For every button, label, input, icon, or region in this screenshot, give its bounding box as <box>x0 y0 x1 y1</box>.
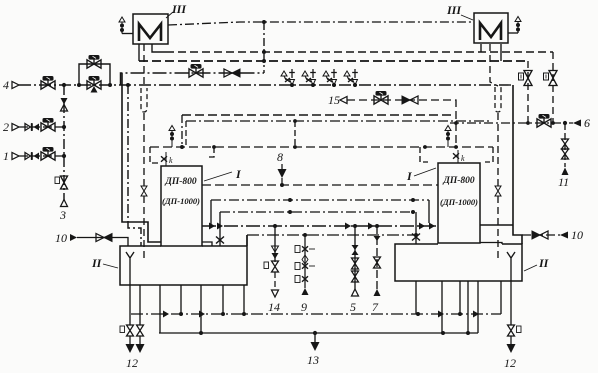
check valve on 10 right <box>532 231 548 239</box>
motor valve on line 15 <box>374 91 388 104</box>
bottom header A y314 <box>131 311 501 318</box>
label 14 <box>268 300 280 314</box>
label 9 <box>301 300 307 314</box>
svg-text:9: 9 <box>301 300 307 314</box>
line y185 between units <box>202 183 438 187</box>
inlet 1 line <box>19 155 64 157</box>
svg-text:2: 2 <box>3 120 9 134</box>
label 12 left <box>126 356 138 370</box>
label 7 <box>372 300 379 314</box>
vessel left bottom pipe x224 <box>222 285 224 314</box>
inlet 8 drop <box>281 178 283 185</box>
svg-text:(ДП-1000): (ДП-1000) <box>162 196 200 206</box>
svg-text:7: 7 <box>372 300 379 314</box>
bypass loop over line 4 <box>77 64 112 87</box>
label II right with leader <box>524 256 550 271</box>
bracket hook left of DP1 <box>150 147 158 163</box>
vessel right drain pipe x511 <box>510 281 512 325</box>
svg-text:3: 3 <box>59 208 66 222</box>
line 15 <box>347 100 458 149</box>
feed line into DP2 right side <box>480 224 513 226</box>
motor valve on bypass <box>87 55 101 68</box>
drain 13 <box>311 333 320 351</box>
vessel right bottom pipe x460 <box>459 281 461 314</box>
line y73 from main to riser <box>121 73 265 85</box>
vessel right bottom pipe x501 <box>500 281 502 314</box>
drain 11 column <box>562 123 569 175</box>
drain 11 label <box>558 175 569 189</box>
drop x182 <box>180 115 184 149</box>
valve with actuator box x528 <box>519 71 533 86</box>
label III left with leader <box>166 2 187 18</box>
vessel right bottom pipe x468 <box>467 281 469 333</box>
label II left with leader <box>91 256 118 270</box>
inlet 10 left arrow <box>70 234 77 241</box>
line y115 <box>182 114 451 116</box>
safety valve group 4 <box>344 69 358 87</box>
vessel left bottom pipe x200 <box>200 285 202 333</box>
svg-text:13: 13 <box>307 353 319 367</box>
inlet 2 label <box>3 120 9 134</box>
left downcomer solid x122 <box>122 73 161 242</box>
xk fitting above DP1 <box>161 152 173 166</box>
bracket hook right of DP2 <box>485 147 493 162</box>
valve on header x64 <box>61 98 68 111</box>
svg-text:15: 15 <box>328 93 340 107</box>
xk fitting above DP2 <box>453 150 465 163</box>
svg-text:k: k <box>461 154 465 163</box>
heat exchanger III left box <box>133 14 168 44</box>
drain 3 arrow <box>61 200 68 207</box>
motor valve on y73 <box>189 64 203 77</box>
vent on right heat exchanger <box>508 17 521 34</box>
outlet 6 arrow <box>573 120 581 127</box>
vessel right bottom pipe x478 <box>477 281 479 333</box>
vent above DP1 <box>169 126 175 148</box>
outlet 10 right arrow <box>560 232 568 239</box>
inlet 4 label <box>3 78 9 92</box>
vent on left heat exchanger <box>119 17 133 34</box>
vessel left bottom pipe x131 <box>129 285 131 325</box>
flow arrows on y226 <box>209 223 435 230</box>
column 7 <box>374 226 381 296</box>
label I left with leader <box>204 167 242 181</box>
deaerator DP-800 left box <box>161 166 202 246</box>
expansion loop left <box>141 88 147 112</box>
left exchanger drain to y61 <box>138 44 140 61</box>
dashed line y52 <box>166 51 553 53</box>
main line 4 y85 <box>19 84 513 86</box>
line y226 <box>202 225 438 227</box>
svg-text:11: 11 <box>558 175 569 189</box>
inlet 10 left label <box>55 231 67 245</box>
line 15 arrow <box>340 97 347 104</box>
node line1 header <box>62 154 66 158</box>
drain valve 12 left a <box>120 325 135 353</box>
column 9 <box>295 235 315 295</box>
line y235 <box>247 233 418 246</box>
line y200 <box>211 198 429 226</box>
svg-text:8: 8 <box>277 150 283 164</box>
left downcomer dashdot x128 <box>126 83 141 246</box>
line y212 <box>220 210 416 214</box>
label 5 <box>350 300 356 314</box>
vessel II right <box>395 243 522 282</box>
check valve on line 2 <box>25 123 39 131</box>
column 5 <box>352 226 359 296</box>
vessel left bottom pipe x244 <box>243 285 245 314</box>
right downcomer solid x513 <box>513 85 522 244</box>
vessel right bottom pipe x442 <box>441 281 443 333</box>
right valve drop x528 <box>527 61 529 123</box>
vessel left bottom pipe x180 <box>180 285 182 314</box>
drain valve 12 left b <box>136 325 145 353</box>
line y147 <box>150 146 493 148</box>
label 12 right <box>504 356 516 370</box>
bracket hook right of DP1 <box>206 145 216 157</box>
drop x295 <box>293 119 297 149</box>
check valve on 10 left <box>96 234 112 242</box>
svg-text:ДП-800: ДП-800 <box>442 176 475 186</box>
bracket hook left of DP2 <box>420 145 428 162</box>
svg-text:II: II <box>91 256 103 270</box>
inlet 1 arrow <box>12 153 19 160</box>
inlet 4 arrow <box>12 82 19 89</box>
dashed line y61 <box>139 60 528 62</box>
small valve on left drop <box>141 186 147 196</box>
svg-text:10: 10 <box>571 228 583 242</box>
motor valve on line 6 <box>537 114 551 127</box>
drain 3 label <box>59 208 66 222</box>
valve with actuator box x553 <box>544 71 558 86</box>
expansion loop right <box>495 87 501 112</box>
inlet 10 left line <box>77 238 128 247</box>
node line2 header <box>62 125 66 129</box>
check valve on y73 <box>224 69 240 77</box>
level gauge Y left <box>126 252 134 285</box>
svg-text:12: 12 <box>126 356 138 370</box>
svg-text:4: 4 <box>3 78 9 92</box>
left exchanger drain to y52 <box>152 44 166 52</box>
node at x64 y85 <box>62 83 66 87</box>
outlet 10 right line <box>522 234 560 236</box>
safety valve group 2 <box>302 69 316 87</box>
riser x264 from y22 to y73 <box>262 20 266 73</box>
three-way motor valve on line 4 <box>87 76 101 93</box>
small valve on right drop <box>495 186 501 196</box>
svg-text:ДП-800: ДП-800 <box>164 177 197 187</box>
steam line y22 between exchangers <box>168 22 474 25</box>
svg-text:II: II <box>538 256 550 270</box>
outlet 6 line y123 <box>450 121 573 125</box>
svg-text:k: k <box>169 156 173 165</box>
vessel right bottom pipe x416 <box>415 281 417 314</box>
motor valve on line 4 <box>41 76 55 89</box>
inlet 2 line <box>19 126 64 128</box>
safety valve group 1 <box>281 69 295 87</box>
outlet 6 label <box>584 116 590 130</box>
vessel II left <box>120 235 247 285</box>
drop x220 with shutoff <box>216 212 224 246</box>
svg-text:12: 12 <box>504 356 516 370</box>
motor valve on line 1 <box>41 147 55 160</box>
vessel left bottom pipe x159 <box>159 285 161 333</box>
check valve on line 1 <box>25 152 39 160</box>
deaerator DP-800 right box <box>438 163 480 243</box>
drop x417 with shutoff <box>412 212 420 244</box>
outlet 10 right label <box>571 228 583 242</box>
valve with box before drain 3 <box>55 176 68 189</box>
svg-text:10: 10 <box>55 231 67 245</box>
line 15 label <box>328 93 340 107</box>
vent above DP2 <box>445 126 451 148</box>
safety valve group 3 <box>323 69 337 87</box>
heat exchanger III right box <box>474 13 508 43</box>
label I right with leader <box>406 168 436 183</box>
inlet 1 label <box>3 149 9 163</box>
right exchanger drain to y61 <box>500 44 502 61</box>
svg-text:1: 1 <box>3 149 9 163</box>
level gauge Y right <box>507 252 515 281</box>
header drop x64 to drain 3 <box>63 85 65 200</box>
svg-text:14: 14 <box>268 300 280 314</box>
check valve on line 15 <box>402 96 418 104</box>
svg-text:5: 5 <box>350 300 356 314</box>
inlet 8 label <box>277 150 283 164</box>
svg-text:III: III <box>171 2 187 16</box>
svg-text:III: III <box>446 3 462 17</box>
label III right with leader <box>446 3 473 20</box>
label 13 <box>307 353 319 367</box>
bottom header B y333 <box>159 331 478 335</box>
svg-text:(ДП-1000): (ДП-1000) <box>440 197 478 207</box>
right valve drop x553 <box>552 52 554 123</box>
column 14 <box>264 226 279 297</box>
right unit center drop x498 <box>490 44 498 258</box>
svg-text:6: 6 <box>584 116 590 130</box>
right exchanger drain to y52 <box>480 44 482 52</box>
vessel left bottom pipe x141 <box>139 285 141 325</box>
left unit center drop x144 <box>143 44 145 258</box>
drain valve 12 right <box>507 325 522 353</box>
inlet 2 arrow <box>12 124 19 131</box>
inlet 8 arrow <box>278 164 287 178</box>
motor valve on line 2 <box>41 118 55 131</box>
line y121 <box>186 121 490 145</box>
